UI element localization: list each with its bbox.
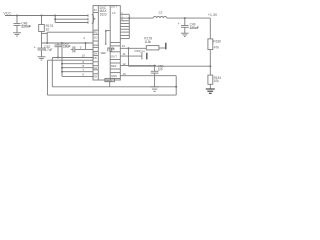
- wire inductor to corner: [167, 17, 211, 19]
- label pin number 14: [122, 52, 125, 56]
- capacitor C54: [141, 53, 143, 60]
- IC right pin texts: [111, 4, 118, 77]
- capacitor C48: [14, 23, 21, 25]
- svg-text:SH: SH: [93, 52, 97, 56]
- wire pin14 cap lead: [120, 55, 142, 57]
- capacitor C52 polarity mark: [34, 46, 36, 50]
- wire jog resistor to riser: [42, 32, 48, 34]
- IC right pin column line: [109, 6, 111, 80]
- IC bottom GND tab: [105, 78, 115, 81]
- IC internal switch: [105, 30, 107, 44]
- svg-text:10: 10: [46, 27, 50, 31]
- wire C49 bottom lead: [184, 27, 186, 33]
- node junction net A / bus: [61, 42, 63, 44]
- label C54: [140, 50, 145, 54]
- wire IN stub 2: [55, 18, 88, 20]
- ground C49: [181, 32, 189, 34]
- svg-text:OUT: OUT: [111, 4, 118, 8]
- node junction VCC bus: [54, 15, 56, 17]
- svg-text:GN: GN: [93, 74, 97, 78]
- wire net A: [42, 42, 94, 44]
- wire pin lead y76.4: [62, 75, 93, 77]
- resistor R176: [39, 25, 45, 32]
- wire loop B pin lead: [48, 59, 94, 61]
- svg-text:+1.3V: +1.3V: [208, 13, 218, 17]
- capacitor C49: [181, 25, 189, 27]
- svg-text:13: 13: [122, 44, 126, 48]
- label C52 4.7uF: [44, 45, 52, 52]
- svg-text:GN: GN: [93, 66, 97, 70]
- node junction LX bus rail: [128, 17, 130, 19]
- svg-text:GND: GND: [106, 78, 112, 82]
- label left pin numbers: [82, 54, 86, 77]
- IC centre text MAX1623: [100, 6, 108, 16]
- node junction riser: [46, 42, 48, 44]
- wire R176 bottom lead: [41, 32, 43, 44]
- svg-text:R180: R180: [213, 40, 221, 44]
- wire VCC bus vertical: [54, 16, 56, 23]
- wire R178 right lead: [159, 47, 166, 49]
- wire loop B vertical: [47, 60, 49, 95]
- svg-text:115k: 115k: [144, 40, 151, 44]
- svg-text:PV: PV: [94, 30, 98, 34]
- IC input brace: [92, 14, 95, 23]
- resistor R178 horizontal: [146, 46, 159, 50]
- svg-text:10k: 10k: [214, 79, 220, 83]
- node junction C48: [16, 15, 18, 17]
- svg-text:220nF: 220nF: [21, 25, 31, 29]
- capacitor C50: [151, 70, 159, 72]
- wire IN stub 3: [55, 22, 88, 24]
- node junction R176: [41, 15, 43, 17]
- wire C52 top lead: [41, 43, 43, 48]
- svg-text:IN: IN: [94, 8, 97, 12]
- node junction FB: [128, 47, 130, 49]
- wire FB pin lead: [120, 47, 146, 49]
- IC left pin texts: [93, 30, 97, 78]
- label +1.3V: [208, 13, 218, 17]
- wire FB feedback line: [129, 65, 211, 67]
- wire C53 bottom lead: [57, 47, 59, 58]
- node junction output / C49: [184, 17, 186, 19]
- svg-text:C54: C54: [140, 50, 145, 54]
- wire rail B: [48, 94, 177, 96]
- IC internal REF text: [101, 51, 107, 55]
- label L2: [159, 11, 163, 15]
- wire R181 bottom lead: [209, 84, 211, 89]
- wire C48 top lead: [16, 16, 18, 24]
- resistor R180: [208, 39, 213, 50]
- wire rail to inductor: [129, 17, 153, 19]
- label right stub pin numbers: [121, 12, 123, 22]
- wire R176 top lead: [41, 16, 43, 25]
- svg-text:+: +: [178, 22, 180, 26]
- terminal bar: [165, 43, 167, 50]
- ground C50: [150, 86, 159, 88]
- wire C50 top lead: [154, 66, 156, 72]
- wire C49 top lead: [184, 18, 186, 25]
- node junction REF cap: [154, 65, 156, 67]
- label R176 10: [46, 24, 54, 31]
- resistor R181: [208, 75, 213, 84]
- capacitor C53: [55, 44, 62, 46]
- wire pin lead y63.7: [62, 63, 93, 65]
- label C49 220uF: [190, 23, 199, 30]
- svg-text:L2: L2: [159, 11, 163, 15]
- wire net upper to IC pin: [47, 31, 93, 33]
- svg-text:4: 4: [83, 36, 85, 40]
- svg-text:FB: FB: [93, 56, 97, 60]
- IC right pin box dividers: [110, 42, 120, 44]
- wire C51 left stub: [71, 48, 73, 50]
- capacitor C51: [72, 46, 74, 52]
- IC left pin box dividers: [93, 29, 98, 31]
- wire divider mid: [209, 50, 211, 76]
- wire right rail down: [209, 18, 211, 39]
- wire C52 bottom lead: [41, 50, 43, 57]
- inductor L2: [153, 16, 167, 18]
- svg-text:GND: GND: [111, 74, 117, 78]
- wire GND tab stem: [109, 82, 111, 87]
- wire C53 top lead: [57, 43, 59, 45]
- wire FB riser: [128, 48, 130, 66]
- wire C50 bottom lead: [154, 73, 156, 87]
- wire LX bus: [128, 14, 130, 38]
- node junction net A / C51 riser: [85, 42, 87, 44]
- wire GND riser right: [175, 76, 177, 95]
- wire C51 riser: [85, 43, 87, 49]
- svg-text:5: 5: [80, 45, 82, 49]
- IC pin box IN top: [93, 12, 98, 14]
- svg-text:47k: 47k: [214, 46, 220, 50]
- wire pin lead y67.7: [62, 67, 93, 69]
- svg-text:SO: SO: [94, 35, 98, 39]
- svg-text:OUT: OUT: [111, 55, 117, 59]
- wire loop A pin lead: [52, 57, 93, 59]
- label pin number 11: [122, 72, 126, 76]
- svg-text:+: +: [34, 46, 36, 50]
- label C48 220nF: [21, 22, 31, 29]
- node VCC label: [3, 12, 11, 16]
- label pin number 12: [122, 62, 126, 66]
- capacitor C49 polarity mark: [178, 22, 180, 26]
- capacitor C52: [38, 47, 46, 49]
- op-amp U? IC MAX1623 outer box: [93, 6, 120, 80]
- svg-text:11: 11: [122, 52, 125, 56]
- svg-text:10: 10: [122, 72, 126, 76]
- wire GND pin lead right: [120, 75, 176, 77]
- svg-text:4.7uF: 4.7uF: [44, 48, 52, 52]
- svg-text:FB: FB: [111, 47, 115, 51]
- svg-text:LX: LX: [112, 11, 116, 15]
- node junction FB tap: [209, 65, 211, 67]
- wire pin lead y71.7: [62, 71, 93, 73]
- wire riser x47: [46, 32, 48, 43]
- label R180 47k: [213, 40, 221, 50]
- wire net B: [75, 48, 93, 50]
- label R178 115k: [144, 37, 152, 44]
- svg-text:220uF: 220uF: [190, 26, 199, 30]
- svg-text:VCC: VCC: [3, 12, 11, 16]
- wire REF lead: [120, 65, 156, 67]
- ground C48: [13, 32, 21, 34]
- svg-text:REF: REF: [101, 51, 107, 55]
- node junction rail A riser: [175, 86, 177, 88]
- wire loop A vertical: [51, 58, 53, 87]
- svg-text:12: 12: [122, 62, 126, 66]
- label D10: [135, 49, 141, 53]
- label R181 10k: [214, 76, 222, 83]
- svg-text:REF: REF: [111, 64, 117, 68]
- IC left pin column line: [97, 6, 99, 80]
- wire LX stubs: [120, 13, 129, 15]
- wire C48 bottom lead: [16, 25, 18, 32]
- node junction C53: [57, 57, 59, 59]
- label C50 1nF: [158, 64, 164, 71]
- svg-text:10uF: 10uF: [63, 45, 70, 49]
- wire rail A: [52, 86, 176, 88]
- label pin number 5: [80, 45, 82, 49]
- label pin number 4: [83, 36, 85, 40]
- wire bus x62: [61, 43, 63, 76]
- wire VCC rail: [5, 15, 88, 17]
- label C53 value: [63, 42, 70, 48]
- label pin number 13: [122, 44, 126, 48]
- wire VCC rail end tick: [87, 14, 89, 17]
- ground C52: [38, 56, 46, 58]
- IC internal waveform icon: [108, 48, 114, 51]
- ground R181: [206, 89, 215, 93]
- svg-text:1623: 1623: [100, 12, 107, 16]
- svg-text:1nF: 1nF: [158, 67, 164, 71]
